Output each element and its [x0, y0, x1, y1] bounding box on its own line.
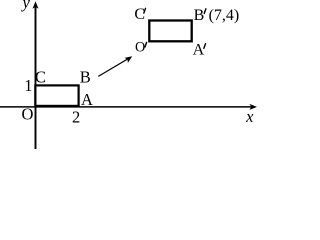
y-axis arrowhead: [33, 1, 39, 9]
translation arrow: [98, 56, 132, 76]
svg-text:O: O: [22, 105, 34, 124]
svg-text:A: A: [193, 42, 205, 59]
rectangle OABC: [35, 85, 78, 106]
label C': [134, 6, 145, 23]
svg-text:1: 1: [24, 76, 32, 95]
svg-text:(7,4): (7,4): [209, 7, 240, 24]
svg-text:C: C: [35, 67, 46, 86]
svg-text:2: 2: [72, 108, 80, 127]
svg-text:y: y: [21, 0, 31, 12]
svg-text:B: B: [80, 67, 91, 86]
svg-text:A: A: [81, 90, 93, 109]
label O': [135, 39, 147, 55]
x-axis arrowhead: [249, 104, 257, 110]
rectangle O'A'B'C': [149, 21, 191, 42]
label B' with coordinates (7,4): [194, 7, 240, 24]
svg-text:O: O: [135, 39, 145, 55]
svg-text:B: B: [194, 7, 205, 24]
x-axis: [0, 106, 252, 108]
y-axis: [35, 6, 37, 149]
label A': [193, 42, 206, 59]
svg-text:C: C: [134, 6, 145, 23]
svg-text:x: x: [245, 107, 254, 126]
